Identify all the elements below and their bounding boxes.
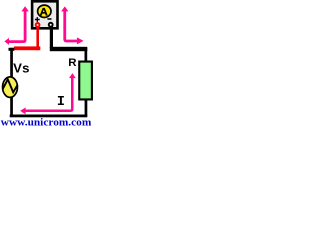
terminal red binding post <box>36 23 40 27</box>
current arrow bottom west head <box>20 107 25 114</box>
current arrow bottom up head <box>69 73 76 78</box>
current arrow top-right east head <box>77 37 84 44</box>
wire black top-left corner arm <box>9 48 15 51</box>
ammeter minus mark <box>47 18 51 20</box>
current arrow left up head <box>21 6 28 11</box>
current arrow left west head <box>4 38 9 45</box>
wire black from ammeter minus terminal down <box>50 27 53 49</box>
wire black thick top-right segment <box>50 47 88 51</box>
svg-text:I: I <box>57 95 65 110</box>
source Vs body <box>3 77 18 98</box>
svg-text:www.unicrom.com: www.unicrom.com <box>1 117 92 128</box>
wire black from resistor bottom <box>85 100 88 116</box>
svg-text:Vs: Vs <box>13 60 30 75</box>
ammeter U1 box <box>32 1 57 28</box>
current arrow bottom L-shape <box>26 78 73 111</box>
svg-text:A: A <box>40 6 48 18</box>
current arrow top-right up head <box>61 6 68 11</box>
terminal black binding post <box>49 23 53 27</box>
wire thick red segment <box>14 46 41 50</box>
svg-text:R: R <box>68 57 76 69</box>
wire black from source bottom <box>10 97 13 117</box>
source Vs sine wave <box>3 79 18 92</box>
resistor R body <box>79 62 92 100</box>
wire red from ammeter plus terminal down <box>36 27 39 51</box>
wire black vertical into resistor top <box>85 48 88 61</box>
ammeter plus mark <box>35 17 40 22</box>
wire black bottom horizontal <box>10 115 88 118</box>
current arrow left L-shape <box>9 11 25 42</box>
ammeter U1 dial <box>38 5 51 17</box>
wire black left vertical to source top <box>10 48 13 77</box>
current arrow top-right L-shape <box>65 11 77 41</box>
